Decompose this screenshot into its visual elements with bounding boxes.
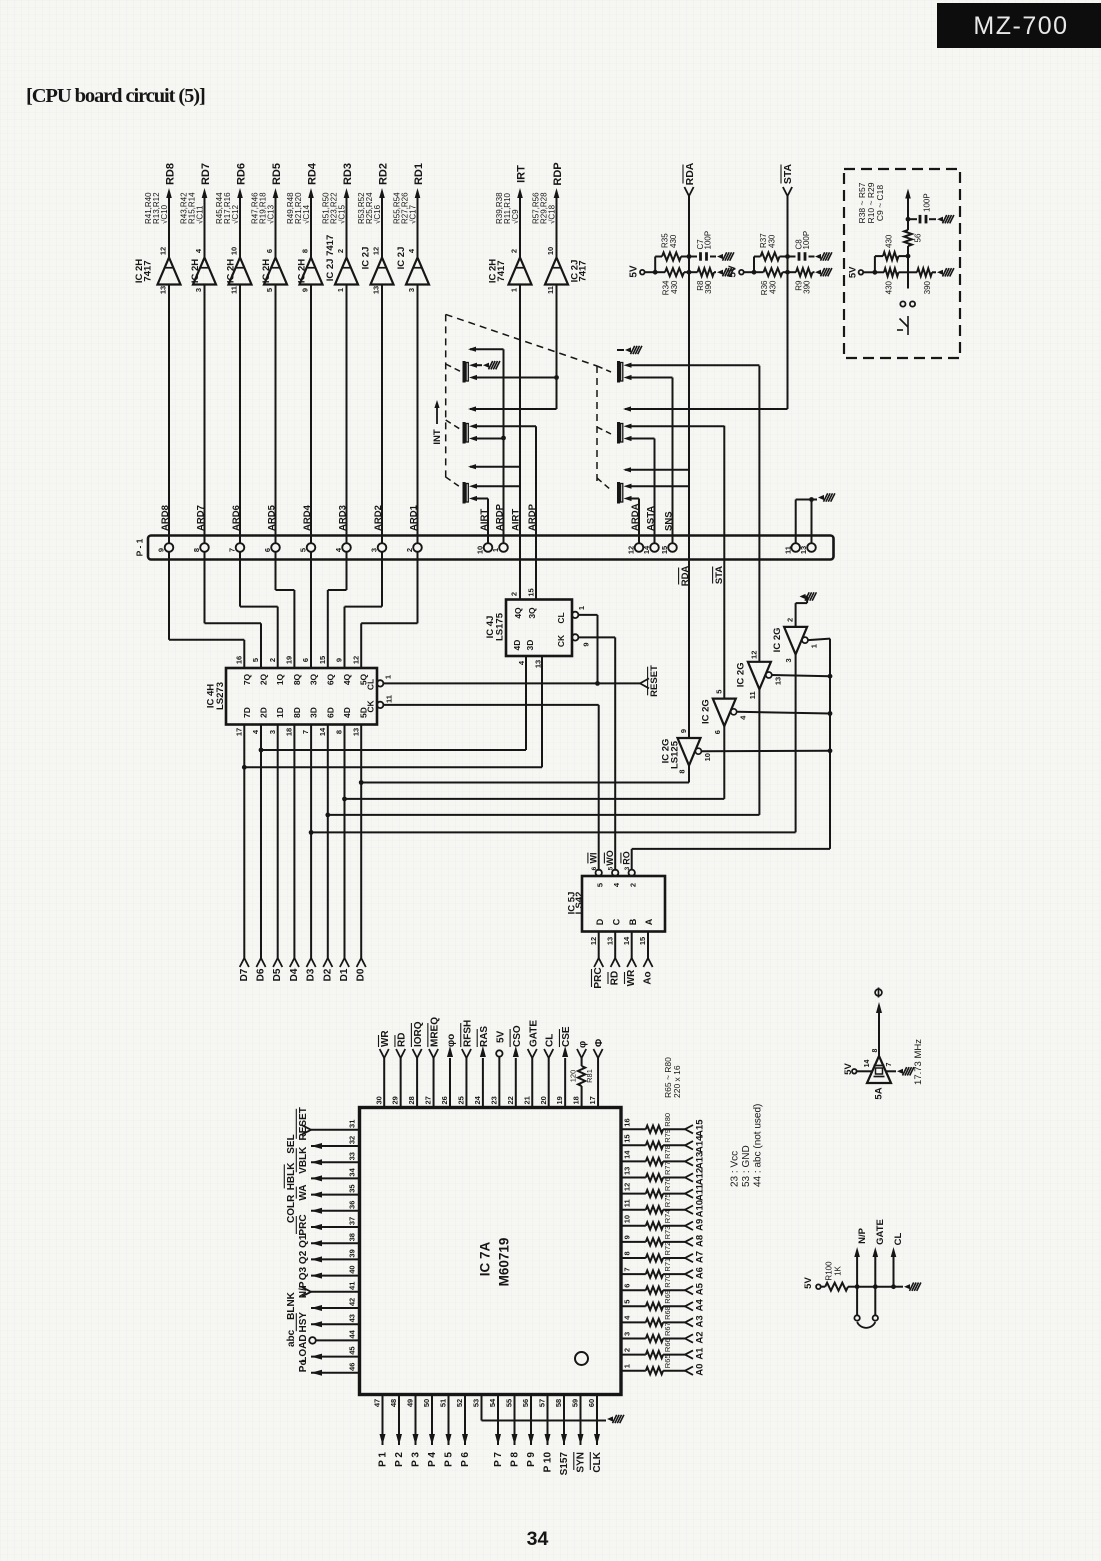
resistor R100 1K — [821, 1261, 857, 1291]
svg-text:LS273: LS273 — [215, 682, 226, 710]
svg-text:AIRT: AIRT — [510, 509, 521, 531]
svg-text:43: 43 — [348, 1314, 357, 1322]
svg-text:15: 15 — [638, 937, 647, 945]
svg-text:12: 12 — [372, 247, 381, 255]
legend dashed box R38~R57 R10~R29 C9~C18 — [844, 169, 960, 358]
label R65~R80 220x16 — [663, 1057, 682, 1098]
svg-text:430: 430 — [767, 234, 776, 248]
svg-text:13: 13 — [623, 1167, 632, 1175]
svg-text:8: 8 — [301, 249, 310, 253]
buffer 7417 output RD2 — [357, 163, 394, 294]
bus pin 4 ARD3 — [334, 505, 351, 552]
svg-text:PRC: PRC — [298, 1214, 309, 1235]
svg-text:10: 10 — [546, 247, 555, 255]
IC 7A bottom pin 50 P 4 — [422, 1395, 438, 1467]
IC 7A top pin 22 CSO — [506, 1025, 523, 1107]
svg-text:5V: 5V — [847, 266, 858, 278]
net STA upper vertical wire — [781, 163, 794, 409]
svg-text:6Q: 6Q — [325, 673, 335, 685]
svg-text:ASTA: ASTA — [645, 506, 656, 531]
svg-text:55: 55 — [505, 1399, 514, 1407]
IC 7A left pin 40 Q3 — [298, 1265, 360, 1280]
svg-text:√C10: √C10 — [160, 204, 169, 224]
svg-text:R100: R100 — [824, 1261, 833, 1281]
IC 7A top pin 25 RFSH — [457, 1020, 474, 1108]
svg-text:5A: 5A — [873, 1087, 884, 1099]
svg-text:8D: 8D — [292, 707, 302, 718]
svg-text:3: 3 — [784, 658, 793, 662]
svg-text:D7: D7 — [239, 968, 250, 981]
svg-text:12: 12 — [589, 937, 598, 945]
legend 5V terminal — [847, 256, 877, 278]
svg-text:D6: D6 — [256, 968, 267, 981]
svg-text:IC 2H: IC 2H — [296, 259, 307, 283]
oscillator module 5A 17.73MHz — [867, 1039, 924, 1100]
IC 7A right pin 4 resistor R68 to A3 — [621, 1306, 705, 1327]
ground at C7 — [717, 252, 734, 260]
svg-text:Q1: Q1 — [298, 1234, 309, 1248]
svg-text:10: 10 — [703, 753, 712, 761]
svg-text:1: 1 — [810, 644, 819, 648]
svg-text:5: 5 — [251, 658, 260, 662]
svg-text:φo: φo — [446, 1034, 457, 1047]
svg-text:36: 36 — [348, 1201, 357, 1209]
svg-text:7: 7 — [228, 548, 237, 552]
bus pin 2 ARD1 — [405, 504, 422, 552]
svg-text:100P: 100P — [922, 193, 931, 212]
svg-text:P 8: P 8 — [510, 1452, 521, 1467]
svg-text:RFSH: RFSH — [462, 1020, 473, 1047]
svg-text:56: 56 — [521, 1399, 530, 1407]
svg-text:9: 9 — [623, 1235, 632, 1239]
svg-text:16: 16 — [623, 1118, 632, 1126]
wire RD3 buffer to bus pin — [346, 285, 348, 544]
svg-text:4Q: 4Q — [342, 673, 352, 685]
svg-text:13: 13 — [372, 286, 381, 294]
oscillator output PHI — [872, 988, 882, 1057]
tri-state buffer IC 2G #3 — [736, 651, 783, 700]
bus bar P-1 — [135, 536, 834, 560]
buffer 7417 output IRT — [487, 165, 531, 292]
svg-text:A1: A1 — [694, 1347, 705, 1360]
wire IC 2G #3 enable to RO rail — [772, 674, 833, 679]
svg-text:LS42: LS42 — [574, 892, 585, 915]
svg-text:1: 1 — [623, 1364, 632, 1368]
svg-text:RO: RO — [622, 851, 632, 865]
svg-text:RD: RD — [610, 971, 621, 985]
svg-text:5: 5 — [595, 883, 604, 887]
svg-text:abc: abc — [286, 1329, 297, 1347]
svg-text:8: 8 — [678, 769, 687, 773]
svg-text:59: 59 — [571, 1399, 580, 1407]
svg-text:√C18: √C18 — [547, 204, 556, 224]
svg-text:5: 5 — [299, 548, 308, 552]
buffer 7417 output RD8 — [134, 163, 181, 294]
svg-text:3: 3 — [370, 548, 379, 552]
svg-text:30: 30 — [374, 1096, 383, 1104]
svg-text:13: 13 — [773, 677, 782, 685]
net ARDP vertical wire to LS175 3Q — [535, 426, 537, 599]
IC 7A top pin 18 &#966; — [569, 1041, 595, 1108]
svg-text:57: 57 — [538, 1399, 547, 1407]
svg-text:430: 430 — [669, 234, 678, 248]
svg-text:5: 5 — [607, 866, 614, 870]
wire RD1 buffer to bus pin — [417, 285, 419, 544]
IC 7A left pin 32 SEL — [286, 1134, 360, 1153]
buffer 7417 output RD4 — [286, 162, 323, 292]
svg-text:CL: CL — [556, 612, 566, 623]
svg-text:A6: A6 — [694, 1267, 705, 1279]
svg-text:8: 8 — [335, 730, 344, 734]
buffer 7417 output RDP — [531, 162, 588, 294]
svg-text:R79: R79 — [663, 1129, 672, 1143]
svg-text:√C12: √C12 — [231, 204, 240, 224]
wire connector1 lower to RDP junction — [477, 375, 559, 380]
svg-text:RD5: RD5 — [271, 163, 283, 185]
svg-text:R68: R68 — [663, 1306, 672, 1320]
svg-text:34: 34 — [348, 1167, 357, 1176]
svg-text:D1: D1 — [339, 968, 350, 981]
IC 7A right pin 7 resistor R71 to A6 — [621, 1258, 705, 1279]
svg-text:ARDP: ARDP — [527, 503, 538, 531]
svg-text:5V: 5V — [803, 1277, 814, 1289]
svg-text:39: 39 — [348, 1249, 357, 1257]
svg-text:1: 1 — [336, 288, 345, 292]
svg-text:WR: WR — [380, 1030, 391, 1047]
legend resistor 390 — [908, 268, 936, 294]
IC 7A right pin 9 resistor R73 to A8 — [621, 1226, 705, 1247]
IC 7A left pin 41 N/P — [298, 1281, 360, 1298]
svg-text:3D: 3D — [309, 707, 319, 718]
jumper ground — [894, 1283, 921, 1291]
svg-text:BLNK: BLNK — [286, 1291, 297, 1320]
svg-text:7: 7 — [301, 730, 310, 734]
svg-text:27: 27 — [424, 1096, 433, 1104]
svg-text:33: 33 — [348, 1152, 357, 1160]
svg-text:D0: D0 — [356, 968, 367, 981]
svg-text:15: 15 — [527, 588, 536, 596]
svg-text:14: 14 — [864, 1060, 871, 1068]
svg-text:LS125: LS125 — [669, 740, 680, 769]
svg-text:A3: A3 — [694, 1315, 705, 1327]
IC 7A bottom pin 49 P 3 — [406, 1395, 422, 1467]
wire RD7 buffer to bus pin — [204, 285, 206, 544]
IC 7A top pin 26 &#966;o — [440, 1034, 457, 1108]
svg-text:3D: 3D — [525, 640, 535, 651]
IC 7A top pin 29 RD — [391, 1033, 408, 1108]
IC 7A right pin 15 resistor R79 to A14 — [621, 1129, 705, 1153]
svg-text:A12: A12 — [694, 1168, 705, 1185]
svg-text:2: 2 — [405, 548, 414, 552]
wire 5V to R34/R35 — [645, 257, 658, 275]
buffer 7417 output RD5 — [250, 163, 287, 292]
svg-text:26: 26 — [440, 1096, 449, 1104]
svg-text:RD: RD — [397, 1033, 408, 1047]
svg-text:47: 47 — [373, 1399, 382, 1407]
IC 7A right pin 14 resistor R78 to A13 — [621, 1145, 705, 1169]
svg-text:3: 3 — [194, 288, 203, 292]
svg-text:GATE: GATE — [875, 1219, 886, 1245]
IC 7A bottom pin 54 P 7 — [488, 1395, 504, 1467]
wire LS273 6D to D2 — [322, 725, 333, 982]
svg-text:8Q: 8Q — [292, 673, 302, 685]
wire connector3 lower to bus pin 10 — [477, 499, 488, 544]
svg-text:6: 6 — [263, 548, 272, 552]
svg-text:IC 2J: IC 2J — [396, 247, 407, 270]
IC 7A right pin 12 resistor R76 to A11 — [621, 1177, 705, 1201]
svg-text:N/P: N/P — [857, 1227, 868, 1244]
IC 7A bottom pin 57 P 10 — [538, 1395, 554, 1473]
svg-text:A: A — [644, 918, 654, 925]
connector J-A3 (right) — [617, 482, 632, 504]
wire connectorA3 upper to RDA line — [632, 485, 690, 487]
svg-text:15: 15 — [623, 1134, 632, 1142]
svg-text:37: 37 — [348, 1217, 357, 1225]
svg-text:14: 14 — [642, 545, 651, 554]
wire 5V to R36/R37 — [744, 257, 757, 275]
wire ARD2 bus to LS273 4Q — [345, 552, 383, 668]
svg-text:A8: A8 — [694, 1235, 705, 1247]
svg-text:RD6: RD6 — [235, 163, 247, 185]
svg-text:CL: CL — [545, 1034, 556, 1047]
svg-text:D4: D4 — [289, 968, 300, 981]
svg-text:390: 390 — [923, 280, 932, 294]
svg-text:2: 2 — [623, 1348, 632, 1352]
IC 7A bottom pin 51 P 5 — [439, 1395, 455, 1467]
IC 7A bottom pin 52 P 6 — [455, 1395, 471, 1467]
svg-text:C9 ~ C18: C9 ~ C18 — [875, 185, 885, 221]
svg-text:13: 13 — [159, 286, 168, 294]
wire IC 2G #3 output to D2 — [328, 689, 760, 815]
svg-text:46: 46 — [348, 1363, 357, 1371]
INT label with arrow — [432, 400, 443, 445]
bus pin 10 AIRT — [476, 509, 493, 555]
svg-text:1K: 1K — [833, 1265, 842, 1275]
IC U-7A M60719 CRT controller — [360, 1108, 622, 1395]
svg-text:19: 19 — [284, 656, 293, 664]
svg-text:Ao: Ao — [643, 971, 654, 984]
svg-text:RAS: RAS — [479, 1026, 490, 1047]
wire LS42 input WR — [622, 932, 637, 987]
svg-text:R78: R78 — [663, 1145, 672, 1159]
svg-text:ARD1: ARD1 — [408, 504, 419, 531]
svg-text:[CPU board circuit (5)]: [CPU board circuit (5)] — [26, 85, 205, 107]
svg-text:WI: WI — [589, 853, 599, 864]
IC 7A left pin 33 VBLK — [296, 1146, 359, 1174]
svg-text:29: 29 — [391, 1096, 400, 1104]
legend ground at capacitor — [937, 215, 954, 223]
MZ-700 model banner — [937, 3, 1101, 48]
svg-text:A2: A2 — [694, 1331, 705, 1343]
svg-text:8: 8 — [623, 1251, 632, 1255]
svg-text:7D: 7D — [242, 707, 252, 718]
svg-text:12: 12 — [159, 247, 168, 255]
IC 7A top pin 21 GATE — [522, 1020, 539, 1108]
svg-text:53: 53 — [472, 1399, 481, 1407]
svg-text:44: 44 — [348, 1329, 357, 1338]
svg-text:9: 9 — [335, 658, 344, 662]
IC 7A left pin 31 RESET — [296, 1107, 359, 1140]
svg-text:6: 6 — [265, 249, 274, 253]
svg-text:7417: 7417 — [577, 260, 588, 281]
svg-text:√C16: √C16 — [373, 204, 382, 224]
svg-text:HSY: HSY — [298, 1312, 309, 1333]
wire ARD1 bus to LS273 5Q — [361, 552, 417, 668]
svg-text:8: 8 — [872, 1048, 879, 1052]
svg-text:ARD6: ARD6 — [231, 505, 242, 531]
resistor R34 430 — [655, 268, 689, 295]
svg-text:P 6: P 6 — [460, 1452, 471, 1467]
svg-text:RD4: RD4 — [306, 162, 318, 185]
wire ARDP pin1 net with top arrow — [468, 347, 506, 544]
svg-text:11: 11 — [385, 695, 394, 703]
oscillator 5V terminal — [843, 1060, 872, 1075]
svg-text:R77: R77 — [663, 1161, 672, 1175]
svg-text:18: 18 — [284, 728, 293, 736]
bus pin 9 ARD8 — [157, 505, 174, 552]
wire LS273 1D to D5 — [272, 725, 283, 982]
svg-text:3: 3 — [623, 1332, 632, 1336]
svg-text:100P: 100P — [802, 231, 811, 250]
svg-text:31: 31 — [348, 1120, 357, 1128]
svg-text:7417: 7417 — [496, 260, 507, 281]
svg-text:C: C — [611, 918, 621, 925]
bus labels AIRT ARDP pass-through — [510, 503, 538, 531]
wire connectorA3 lower to bus pin 12 ARDA — [632, 499, 640, 544]
IC 7A right pin 6 resistor R70 to A5 — [621, 1274, 705, 1295]
svg-text:16: 16 — [234, 656, 243, 664]
svg-text:PRC: PRC — [593, 967, 604, 988]
wire connectorA2 lower to bus pin 14 ASTA — [632, 439, 655, 544]
wire RDP buffer down to INT arrow — [468, 285, 557, 412]
svg-text:ARD4: ARD4 — [302, 504, 313, 531]
wire connectorA2 upper to STA lower line — [632, 425, 725, 427]
svg-text:3: 3 — [624, 866, 631, 870]
svg-text:RD2: RD2 — [377, 163, 389, 185]
svg-text:D3: D3 — [306, 968, 317, 981]
svg-text:IC 2H: IC 2H — [225, 259, 236, 283]
wire LS273 8D to D4 — [289, 725, 300, 982]
wire RD5 buffer to bus pin — [275, 285, 277, 544]
svg-text:√C15: √C15 — [337, 204, 346, 224]
svg-text:11: 11 — [623, 1199, 632, 1207]
svg-text:4D: 4D — [342, 707, 352, 718]
wire LS273 CL to RESET — [383, 681, 640, 686]
svg-text:390: 390 — [802, 280, 811, 294]
svg-text:2: 2 — [268, 658, 277, 662]
svg-text:4D: 4D — [512, 640, 522, 651]
bus pin 12 ARDA — [627, 503, 644, 554]
svg-text:RDP: RDP — [552, 162, 564, 185]
svg-text:23: 23 — [489, 1096, 498, 1104]
svg-text:9: 9 — [157, 548, 166, 552]
svg-text:A7: A7 — [694, 1251, 705, 1263]
wire ARD8 bus to LS273 7Q — [169, 552, 244, 668]
ground at connector J-INT-1 — [477, 361, 500, 369]
svg-text:22: 22 — [506, 1096, 515, 1104]
svg-text:42: 42 — [348, 1298, 357, 1306]
svg-text:2: 2 — [628, 883, 637, 887]
svg-text:N/P: N/P — [298, 1281, 309, 1298]
svg-text:ARDP: ARDP — [494, 503, 505, 531]
svg-text:48: 48 — [389, 1399, 398, 1407]
svg-text:390: 390 — [704, 280, 713, 294]
buffer 7417 output RD1 — [392, 163, 429, 292]
svg-text:R70: R70 — [663, 1274, 672, 1288]
IC 7A bottom pin 58 S157 — [554, 1395, 570, 1476]
capacitor C8 100P — [785, 231, 814, 261]
svg-text:2: 2 — [336, 249, 345, 253]
ground at C8 — [815, 252, 832, 260]
IC 7A bottom pin 53 GND — [472, 1395, 624, 1424]
svg-text:STA: STA — [782, 163, 794, 184]
resistor R35 430 — [655, 233, 689, 261]
svg-text:CL: CL — [366, 679, 376, 690]
svg-text:P 10: P 10 — [543, 1452, 554, 1473]
svg-text:1: 1 — [510, 288, 519, 292]
svg-text:R67: R67 — [663, 1322, 672, 1336]
svg-text:6: 6 — [713, 730, 722, 734]
svg-text:10: 10 — [623, 1215, 632, 1223]
IC 7A left pin 44 abc — [286, 1329, 360, 1347]
capacitor C7 100P — [687, 231, 716, 261]
connector J-INT-2 (left) — [463, 422, 478, 444]
svg-text:MZ-700: MZ-700 — [973, 12, 1068, 40]
svg-text:58: 58 — [554, 1399, 563, 1407]
svg-text:√C13: √C13 — [266, 204, 275, 224]
svg-text:12: 12 — [750, 651, 759, 659]
svg-text:56: 56 — [913, 233, 922, 242]
svg-text:IC 2J: IC 2J — [360, 247, 371, 270]
svg-text:CLK: CLK — [592, 1451, 603, 1472]
bus pin 8 ARD7 — [192, 505, 209, 552]
svg-text:R73: R73 — [663, 1226, 672, 1240]
legend ground at 390 — [937, 268, 954, 276]
wire RD2 buffer to bus pin — [381, 285, 383, 544]
svg-text:5V: 5V — [728, 265, 739, 278]
svg-text:GATE: GATE — [528, 1020, 539, 1047]
IC 7A right pin 13 resistor R77 to A12 — [621, 1161, 705, 1185]
svg-text:A0: A0 — [694, 1364, 705, 1376]
svg-text:P 2: P 2 — [394, 1452, 405, 1467]
svg-text:15: 15 — [318, 656, 327, 664]
IC 7A left pin 43 HSY — [296, 1312, 359, 1333]
RDA pull-up network 5V terminal — [629, 265, 645, 278]
svg-text:VBLK: VBLK — [298, 1146, 309, 1174]
svg-text:13: 13 — [799, 546, 808, 554]
wire RD6 buffer to bus pin — [239, 285, 241, 544]
svg-text:7: 7 — [886, 1062, 893, 1066]
bus pin 5 ARD4 — [299, 504, 316, 552]
svg-text:D5: D5 — [272, 968, 283, 981]
resistor R37 430 — [754, 233, 788, 261]
svg-text:18: 18 — [572, 1096, 581, 1104]
IC 7A right pin 2 resistor R66 to A1 — [621, 1338, 705, 1359]
legend resistor 430 lower — [875, 268, 908, 294]
IC 7A right pin 3 resistor R67 to A2 — [621, 1322, 705, 1343]
svg-text:6: 6 — [301, 658, 310, 662]
wire RDA arrow row — [623, 467, 689, 472]
svg-text:ARD5: ARD5 — [266, 504, 277, 531]
bus pin 7 ARD6 — [228, 505, 245, 552]
svg-text:3Q: 3Q — [527, 607, 537, 619]
svg-text:RDA: RDA — [680, 566, 691, 587]
svg-text:9: 9 — [582, 642, 591, 646]
svg-text:19: 19 — [555, 1096, 564, 1104]
svg-text:1D: 1D — [275, 707, 285, 718]
legend jumper contacts — [897, 301, 915, 335]
connector J-A2 (right) — [617, 422, 632, 444]
